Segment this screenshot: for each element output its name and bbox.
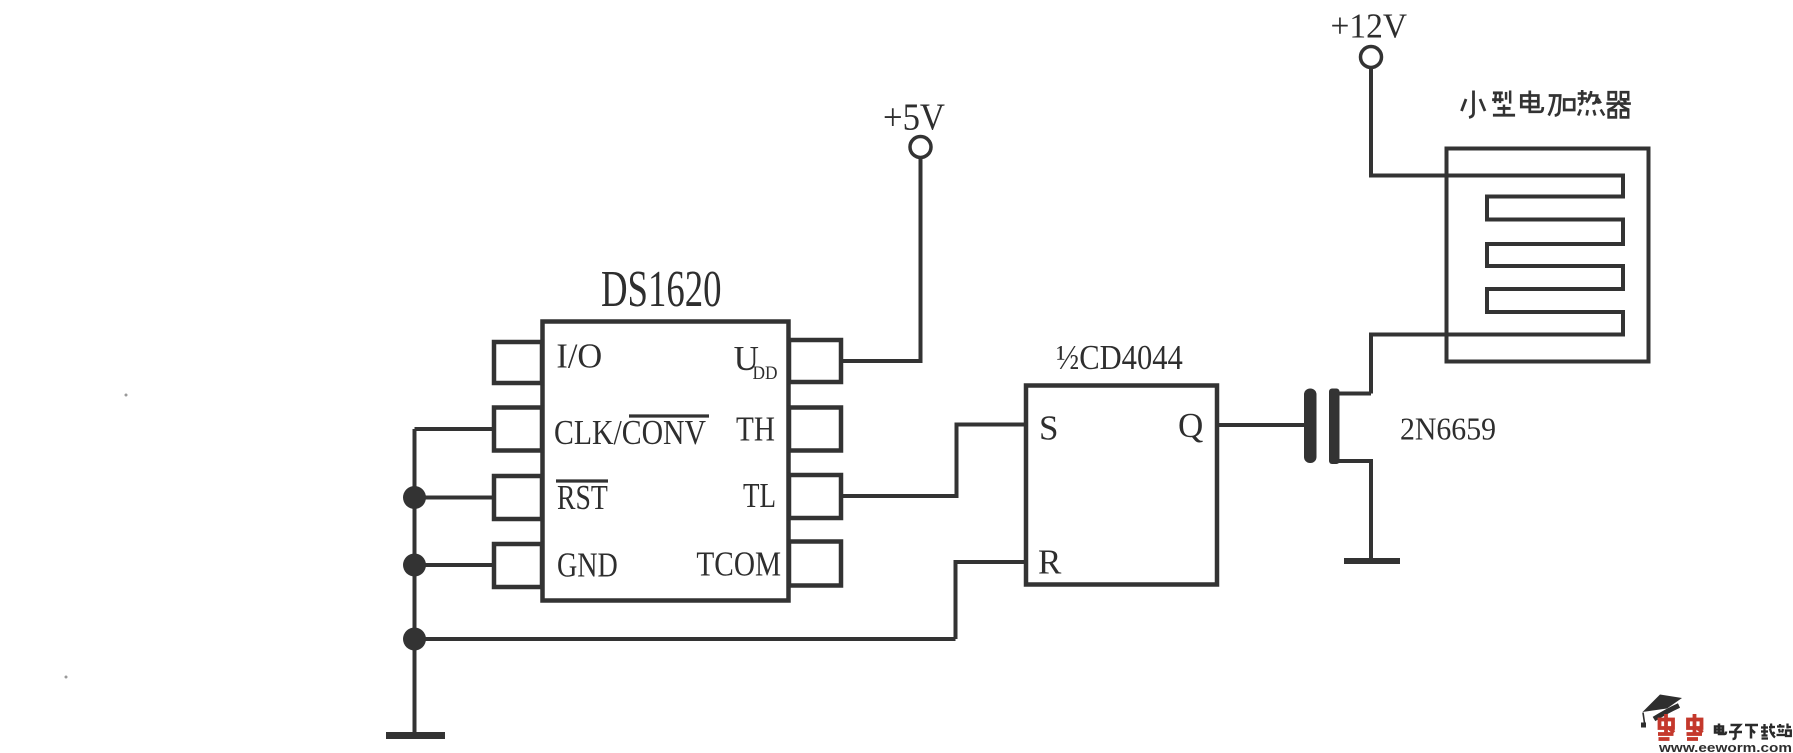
wire TL to S input <box>843 425 1027 497</box>
IC U1 DS1620 body <box>543 322 789 601</box>
svg-text:+12V: +12V <box>1331 7 1408 46</box>
svg-text:S: S <box>1039 409 1058 448</box>
watermark text char 下 <box>1745 725 1758 739</box>
pin RST pad (DS1620 pin 3) <box>494 476 542 519</box>
power terminal +12V circle <box>1361 47 1382 68</box>
watermark logo char 虫 (second, red) <box>1687 714 1703 739</box>
pin TL pad (DS1620 pin 6) <box>789 475 841 518</box>
pin GND pad (DS1620 pin 4) <box>494 544 542 587</box>
scan speck lower left <box>65 676 68 679</box>
svg-text:Q: Q <box>1178 406 1203 445</box>
wire left bus vertical <box>413 429 417 732</box>
wire source to ground <box>1334 461 1371 559</box>
svg-text:2N6659: 2N6659 <box>1400 411 1496 447</box>
wire R net vertical to R input <box>956 562 1028 639</box>
watermark logo char 虫 (first, red) <box>1658 714 1674 739</box>
svg-text:I/O: I/O <box>556 337 602 376</box>
wire drain connection <box>1334 392 1371 396</box>
junction dot GND/bus <box>403 554 426 577</box>
svg-text:R: R <box>1038 543 1062 582</box>
heater title char 器 <box>1606 92 1631 117</box>
svg-text:GND: GND <box>557 546 618 585</box>
heater title char 型 <box>1492 90 1515 115</box>
wire RST to bus <box>415 496 497 500</box>
junction dot R-net/bus <box>403 628 426 651</box>
junction dot RST/bus <box>403 486 426 509</box>
watermark graduation cap tassel <box>1643 713 1645 724</box>
wire GND to bus <box>415 563 497 567</box>
watermark graduation cap tassel end <box>1641 723 1646 728</box>
svg-text:DD: DD <box>753 363 778 384</box>
pin CLK/CONV pad (DS1620 pin 2) <box>494 408 542 451</box>
svg-text:+5V: +5V <box>883 97 946 139</box>
watermark text char 子 <box>1729 725 1742 739</box>
svg-text:½CD4044: ½CD4044 <box>1056 338 1183 377</box>
pin TCOM pad (DS1620 pin 5) <box>789 542 841 586</box>
watermark graduation cap band <box>1654 706 1679 720</box>
watermark text char 站 <box>1777 724 1792 737</box>
transistor Q1 2N6659 gate bar <box>1304 389 1317 464</box>
svg-text:RST: RST <box>557 478 608 517</box>
overline over RST <box>556 479 608 482</box>
scan speck left <box>125 394 128 397</box>
svg-text:www.eeworm.com: www.eeworm.com <box>1658 741 1792 753</box>
watermark text char 电 <box>1715 724 1726 735</box>
ground symbol main bus <box>386 732 445 739</box>
svg-text:DS1620: DS1620 <box>601 261 722 318</box>
wire +5V to UDD pin <box>843 158 921 361</box>
heater EH1 enclosure box <box>1447 149 1649 362</box>
heater title char 电 <box>1521 91 1543 112</box>
pin UDD pad (DS1620 pin 8) <box>789 340 841 382</box>
svg-text:TL: TL <box>743 476 776 515</box>
wire R net long horizontal <box>415 637 956 641</box>
wire Q output to gate of Q1 <box>1216 423 1304 427</box>
heater title char 加 <box>1549 96 1575 116</box>
heater title char 小 <box>1462 91 1486 118</box>
wire CLK/CONV to bus <box>415 427 497 431</box>
overline over CONV <box>629 414 709 417</box>
power terminal +5V circle <box>910 137 931 158</box>
pin TH pad (DS1620 pin 7) <box>789 408 841 451</box>
wire +12V through heater element meander to drain <box>1371 69 1623 394</box>
ground symbol source <box>1344 558 1400 564</box>
pin I/O pad (DS1620 pin 1) <box>494 342 542 383</box>
svg-text:TCOM: TCOM <box>696 545 781 584</box>
watermark graduation cap board <box>1643 695 1683 713</box>
svg-text:CLK/CONV: CLK/CONV <box>554 413 706 452</box>
heater title char 热 <box>1578 90 1605 116</box>
transistor Q1 channel bar <box>1329 389 1340 465</box>
watermark text char 载 <box>1761 724 1775 739</box>
svg-text:TH: TH <box>736 410 775 449</box>
IC U2 1/2 CD4044 body <box>1026 386 1217 585</box>
